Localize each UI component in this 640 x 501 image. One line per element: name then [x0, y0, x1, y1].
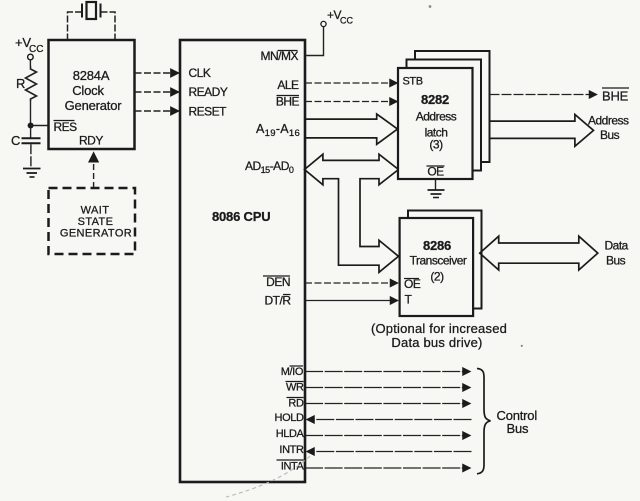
net label Address Bus — [588, 114, 629, 143]
wire HLDA control — [305, 435, 470, 437]
address latch U3 8282 front box — [398, 68, 473, 179]
svg-text:RES: RES — [54, 120, 78, 134]
wire WR control — [305, 387, 470, 389]
svg-text:OE: OE — [427, 165, 444, 179]
pin DEN (CPU) — [263, 275, 290, 289]
transceiver U4 back box — [408, 211, 482, 309]
wire DT/R to T — [305, 300, 398, 302]
svg-text:Data bus drive): Data bus drive) — [391, 335, 482, 350]
svg-text:Generator: Generator — [65, 98, 123, 113]
ground (below C) — [23, 169, 41, 178]
svg-text:DEN: DEN — [266, 275, 290, 289]
ground (below 8282) — [428, 190, 445, 198]
svg-text:Address: Address — [416, 110, 457, 124]
pin DT/R (CPU) — [265, 294, 292, 308]
svg-text:8284A: 8284A — [73, 68, 110, 83]
svg-text:BHE: BHE — [276, 95, 300, 109]
svg-text:A19-A16: A19-A16 — [256, 122, 300, 139]
wire MN/MX to +VCC — [305, 27, 324, 56]
svg-text:WR: WR — [286, 382, 304, 394]
svg-text:HOLD: HOLD — [275, 412, 304, 424]
svg-text:Bus: Bus — [606, 254, 626, 268]
resistor R — [16, 66, 37, 101]
svg-text:RESET: RESET — [189, 105, 228, 119]
wire Vcc to resistor — [29, 60, 31, 66]
wire crystal right leg to 8284A — [101, 12, 116, 40]
svg-text:(Optional for increased: (Optional for increased — [371, 321, 507, 336]
svg-text:GENERATOR: GENERATOR — [60, 228, 132, 240]
svg-text:Transceiver: Transceiver — [410, 254, 467, 268]
pin WR (CPU) — [286, 382, 304, 394]
power +VCC (left) — [15, 35, 43, 60]
node junction (R, C, RES) — [28, 123, 34, 129]
svg-text:CLK: CLK — [189, 66, 211, 80]
svg-text:C: C — [11, 133, 20, 148]
net label Data Bus — [605, 239, 629, 268]
svg-text:BHE: BHE — [602, 89, 629, 104]
pin OE (8286) — [404, 277, 421, 291]
pin RES (8284A) — [54, 120, 78, 134]
svg-text:STATE: STATE — [78, 216, 114, 228]
svg-text:CC: CC — [340, 16, 353, 26]
svg-text:STB: STB — [403, 76, 423, 88]
bus arrow Address Bus — [490, 115, 594, 147]
svg-text:8286: 8286 — [423, 238, 451, 253]
wire BHE to latch — [305, 101, 397, 103]
node label Control Bus — [497, 408, 538, 436]
svg-text:DT/R: DT/R — [265, 294, 292, 308]
pin OE (8282) — [427, 165, 445, 179]
clock generator U1 8284A box — [49, 40, 135, 149]
pin INTA (CPU) — [277, 460, 305, 473]
wire INTR control — [307, 451, 472, 453]
svg-text:HLDA: HLDA — [276, 428, 305, 440]
wire DEN to OE — [305, 282, 398, 284]
wire crystal left leg to 8284A — [68, 12, 83, 40]
net label BHE (output) — [602, 88, 629, 104]
power +VCC (MN/MX) — [321, 8, 354, 27]
address latch U3 middle box — [407, 60, 482, 171]
pin MN/MX (CPU) — [261, 49, 299, 63]
svg-text:INTA: INTA — [281, 461, 305, 473]
pin M/IO (CPU) — [281, 366, 304, 378]
svg-text:R: R — [16, 76, 25, 91]
bus arrow A19-A16 to latch — [305, 114, 398, 144]
speck artifacts — [429, 5, 523, 347]
svg-text:CC: CC — [29, 44, 43, 55]
svg-text:M/IO: M/IO — [281, 366, 304, 378]
CPU U2 8086 box — [180, 40, 305, 482]
svg-text:(2): (2) — [430, 270, 444, 284]
wire BHE output — [490, 94, 597, 96]
svg-text:AD15-AD0: AD15-AD0 — [245, 159, 294, 175]
pin BHE (CPU) — [276, 95, 300, 109]
wire wait-state to RDY pin — [93, 153, 95, 188]
svg-text:RDY: RDY — [79, 134, 103, 148]
svg-text:Bus: Bus — [507, 421, 530, 436]
caption optional note — [371, 321, 507, 350]
faint pencil mark — [226, 456, 310, 497]
svg-text:T: T — [405, 293, 413, 307]
svg-text:READY: READY — [189, 85, 228, 99]
wire CLK (8284A to CPU) — [135, 72, 179, 74]
svg-text:ALE: ALE — [277, 78, 299, 92]
wire HOLD control — [307, 419, 472, 421]
bus arrow Data Bus — [480, 236, 598, 270]
address latch U3 back box — [415, 51, 490, 162]
wire INTA control — [305, 467, 470, 469]
svg-text:Address: Address — [588, 114, 629, 128]
wire ALE to STB — [305, 82, 397, 84]
svg-text:RD: RD — [288, 398, 304, 410]
control bus brace — [477, 369, 491, 474]
wire RESET (8284A to CPU) — [135, 110, 179, 112]
wire RD control — [305, 403, 470, 405]
svg-text:Data: Data — [605, 239, 629, 253]
svg-text:(3): (3) — [429, 138, 443, 152]
svg-text:Clock: Clock — [72, 83, 104, 98]
svg-text:8086 CPU: 8086 CPU — [212, 209, 270, 224]
pin RD (CPU) — [287, 398, 304, 410]
svg-text:INTR: INTR — [279, 444, 304, 456]
crystal Y1 — [82, 2, 101, 19]
transceiver U4 8286 front box — [400, 218, 474, 316]
wire OE to ground — [435, 179, 437, 190]
bus AD15-AD0 (CPU-latch-transceiver hollow bus) — [305, 154, 399, 272]
wire READY (8284A to CPU) — [135, 91, 179, 93]
wire C to ground — [30, 144, 32, 168]
svg-text:8282: 8282 — [421, 92, 449, 107]
svg-text:Bus: Bus — [600, 128, 620, 142]
wait state generator box — [49, 188, 136, 254]
wire M/IO control — [305, 371, 470, 373]
capacitor C — [11, 129, 41, 149]
wire resistor to node RES — [30, 101, 32, 126]
svg-text:WAIT: WAIT — [81, 205, 110, 217]
wire node to 8284A RES pin — [31, 125, 49, 127]
